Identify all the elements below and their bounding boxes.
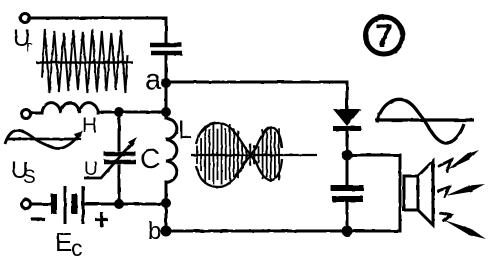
svg-text:7: 7: [375, 18, 393, 54]
svg-text:S: S: [23, 167, 36, 188]
svg-text:H: H: [82, 114, 97, 137]
svg-text:г: г: [26, 37, 32, 56]
svg-text:U: U: [84, 159, 98, 180]
svg-text:a: a: [145, 64, 162, 96]
svg-text:c: c: [71, 235, 83, 261]
svg-text:L: L: [178, 116, 192, 144]
svg-text:E: E: [55, 227, 72, 257]
svg-text:C: C: [140, 143, 160, 174]
svg-text:b: b: [148, 218, 161, 245]
